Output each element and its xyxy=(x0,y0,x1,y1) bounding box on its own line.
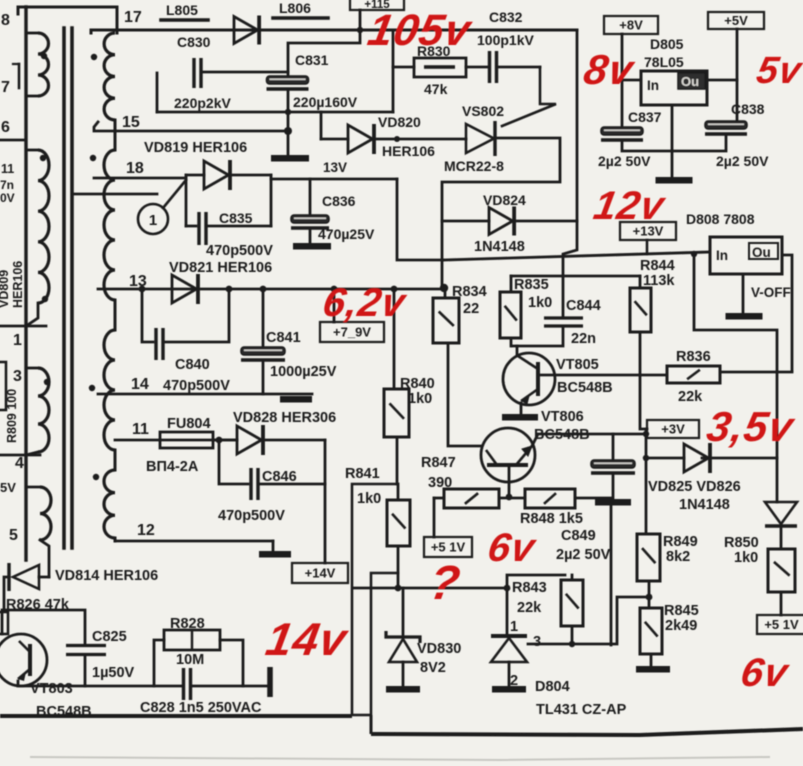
wire R836 right xyxy=(720,371,792,374)
svg-text:2k49: 2k49 xyxy=(665,618,697,634)
node pin 6 xyxy=(0,139,26,142)
capacitor C830 xyxy=(156,73,159,112)
node pin 8 xyxy=(18,7,26,14)
svg-text:VD825 VD826: VD825 VD826 xyxy=(648,479,741,495)
IC D804 TL431 xyxy=(506,588,509,634)
wire pin 18 xyxy=(94,177,186,180)
transistor VT803 xyxy=(0,634,47,686)
svg-text:TL431 CZ-AP: TL431 CZ-AP xyxy=(536,702,627,718)
node +14V box xyxy=(292,563,348,583)
svg-text:R844: R844 xyxy=(640,258,675,274)
svg-text:220p2kV: 220p2kV xyxy=(174,95,231,111)
svg-text:0V: 0V xyxy=(0,191,15,205)
svg-text:2µ2 50V: 2µ2 50V xyxy=(598,153,651,169)
svg-text:C849: C849 xyxy=(561,528,596,544)
svg-text:1k0: 1k0 xyxy=(357,491,381,507)
svg-text:VD828 HER306: VD828 HER306 xyxy=(233,410,336,426)
svg-text:78L05: 78L05 xyxy=(644,54,684,70)
resistor R830 xyxy=(392,30,395,112)
svg-text:1N4148: 1N4148 xyxy=(679,497,730,513)
svg-text:1k0: 1k0 xyxy=(734,550,758,566)
svg-text:HER106: HER106 xyxy=(382,143,435,159)
svg-text:+8V: +8V xyxy=(619,18,643,33)
wire sense line (? net) xyxy=(354,587,507,590)
svg-text:V-OFF: V-OFF xyxy=(751,285,791,300)
wire +115 stub / C831 elbow xyxy=(288,10,360,75)
ground (7808) xyxy=(742,274,745,313)
capacitor C835 (parallel loop) xyxy=(185,175,188,226)
svg-text:C840: C840 xyxy=(175,357,210,373)
wire VT805 base to R836 xyxy=(538,374,667,377)
svg-text:6v: 6v xyxy=(737,650,793,695)
wire feedback tap (to bottom) xyxy=(352,484,398,715)
ground (VD830) xyxy=(386,686,420,693)
svg-text:C828 1n5 250VAC: C828 1n5 250VAC xyxy=(140,700,262,716)
svg-text:5: 5 xyxy=(9,527,18,544)
svg-text:+5V: +5V xyxy=(724,13,748,28)
svg-text:C838: C838 xyxy=(731,101,765,117)
svg-text:C844: C844 xyxy=(566,298,601,314)
transistor VT805 xyxy=(516,346,519,355)
svg-text:1: 1 xyxy=(149,212,157,229)
svg-text:C836: C836 xyxy=(322,193,356,209)
ground (D804) xyxy=(492,686,526,693)
svg-text:C837: C837 xyxy=(628,109,662,125)
svg-text:8V2: 8V2 xyxy=(420,660,446,676)
wire top line pin 17 xyxy=(18,6,117,9)
resistor R834 xyxy=(440,284,448,292)
node pin 7 xyxy=(18,64,21,88)
wire pin 12 xyxy=(115,540,273,543)
winding W1 (primary top) xyxy=(26,32,38,35)
svg-text:+5 1V: +5 1V xyxy=(431,540,466,555)
resistor R843 xyxy=(507,575,565,588)
node pin 1 xyxy=(0,325,46,328)
wire pin 14 xyxy=(98,393,312,396)
capacitor C846 (parallel loop) xyxy=(216,437,223,444)
svg-text:18: 18 xyxy=(126,160,144,177)
svg-text:7: 7 xyxy=(1,79,10,96)
svg-text:VD820: VD820 xyxy=(378,114,421,130)
wire VD828 out to +14V xyxy=(324,440,327,563)
svg-text:R849: R849 xyxy=(663,534,698,550)
wire TL431 ref xyxy=(528,597,649,644)
svg-text:D804: D804 xyxy=(535,679,570,695)
svg-text:14: 14 xyxy=(131,376,149,393)
node +7..9V box xyxy=(333,289,336,322)
svg-text:12v: 12v xyxy=(590,183,669,228)
wire left rail xyxy=(24,7,27,560)
capacitor C840 (parallel loop) xyxy=(139,286,146,293)
svg-text:R847: R847 xyxy=(421,455,456,471)
transformer core xyxy=(62,28,66,548)
node connector circle 1 xyxy=(138,204,168,234)
svg-text:VD809: VD809 xyxy=(0,270,11,308)
svg-text:11: 11 xyxy=(132,421,149,438)
wire VD825 cathode / +13V link xyxy=(694,253,777,502)
wire +3V rail down xyxy=(645,429,648,534)
wire emitter line xyxy=(18,681,183,686)
capacitor C825 xyxy=(66,644,106,647)
svg-text:+5 1V: +5 1V xyxy=(764,617,799,632)
svg-text:FU804: FU804 xyxy=(167,416,211,432)
svg-text:BC548B: BC548B xyxy=(36,704,92,720)
winding S1 (secondary top) xyxy=(104,33,115,120)
ground (C836) xyxy=(293,243,331,250)
page shadow line xyxy=(30,757,770,760)
svg-text:470p500V: 470p500V xyxy=(163,378,230,394)
wire VT806 emitter down xyxy=(508,467,511,497)
wire R834 to VT806 base xyxy=(448,343,482,446)
svg-text:105v: 105v xyxy=(364,6,476,55)
terminal stub xyxy=(267,667,273,697)
wire pin 13 / 6.2V rail xyxy=(98,288,445,291)
ground (C837/C838) xyxy=(671,105,674,178)
capacitor C828 xyxy=(182,668,185,700)
svg-text:L806: L806 xyxy=(279,0,311,16)
ground (pin 14 rail) xyxy=(280,396,312,403)
svg-text:In: In xyxy=(716,248,728,263)
svg-text:R841: R841 xyxy=(345,466,380,482)
svg-text:C825: C825 xyxy=(92,629,127,645)
svg-text:R836: R836 xyxy=(676,349,711,365)
inductor L806 xyxy=(273,16,328,20)
node +13V box xyxy=(620,222,676,240)
svg-text:3,5v: 3,5v xyxy=(703,403,798,450)
svg-text:+14V: +14V xyxy=(305,566,336,581)
diode VD825 xyxy=(646,457,684,460)
svg-text:1: 1 xyxy=(13,332,22,349)
svg-text:VD824: VD824 xyxy=(483,192,526,208)
svg-text:14v: 14v xyxy=(262,613,352,665)
wire 13V rail xyxy=(271,178,397,181)
diode VD826 (pointing down) xyxy=(765,502,797,524)
svg-text:2µ2 50V: 2µ2 50V xyxy=(716,153,769,169)
capacitor C836 xyxy=(309,179,312,215)
svg-text:VT805: VT805 xyxy=(556,357,599,373)
svg-text:VD830: VD830 xyxy=(417,641,461,657)
svg-text:1µ50V: 1µ50V xyxy=(92,665,135,681)
svg-text:1k0: 1k0 xyxy=(528,295,552,311)
svg-text:VD821 HER106: VD821 HER106 xyxy=(169,260,272,276)
node +5.1V box (right) xyxy=(757,615,803,634)
winding W3 (primary) xyxy=(26,367,38,370)
wire main vertical (105V drop) xyxy=(563,30,577,318)
winding S2 xyxy=(104,150,115,300)
svg-text:D805: D805 xyxy=(650,36,684,52)
resistor R840 xyxy=(391,286,398,293)
svg-text:VD819 HER106: VD819 HER106 xyxy=(144,140,247,156)
node +115V box (clipped) xyxy=(350,0,404,10)
svg-text:Ou: Ou xyxy=(752,245,771,260)
svg-text:470p500V: 470p500V xyxy=(206,243,273,259)
svg-text:22n: 22n xyxy=(571,331,596,347)
svg-text:In: In xyxy=(647,78,659,93)
wire ground rail (C830/C831) xyxy=(157,111,393,114)
wire pin 11 xyxy=(115,439,237,442)
svg-text:MCR22-8: MCR22-8 xyxy=(444,158,504,174)
svg-text:6: 6 xyxy=(1,119,10,136)
ground (C849) xyxy=(595,499,631,506)
svg-text:5v: 5v xyxy=(753,49,803,92)
svg-text:12: 12 xyxy=(137,522,155,539)
svg-text:BC548B: BC548B xyxy=(557,380,613,396)
ground (VT805 emitter) xyxy=(520,403,523,414)
wire R835/R844 top rail xyxy=(511,275,640,278)
svg-text:VD814 HER106: VD814 HER106 xyxy=(55,568,158,584)
wire pin 15 xyxy=(94,122,288,131)
svg-text:11: 11 xyxy=(1,162,14,176)
svg-text:R809 100: R809 100 xyxy=(5,389,19,443)
resistor R848 xyxy=(499,497,525,500)
capacitor C831 xyxy=(267,76,309,84)
svg-text:+3V: +3V xyxy=(661,422,685,437)
wire main 105V line xyxy=(91,30,577,33)
svg-text:10M: 10M xyxy=(176,652,204,668)
svg-text:47k: 47k xyxy=(424,81,448,97)
svg-text:15: 15 xyxy=(122,114,140,131)
svg-text:C835: C835 xyxy=(219,210,253,226)
svg-text:C846: C846 xyxy=(262,469,297,485)
svg-text:C831: C831 xyxy=(295,52,329,68)
wire VT806 collector to +3V node xyxy=(532,434,646,446)
diode (L805-L806) xyxy=(234,17,258,44)
svg-text:R835: R835 xyxy=(514,277,549,293)
svg-text:2µ2 50V: 2µ2 50V xyxy=(556,547,611,563)
svg-text:R845: R845 xyxy=(664,603,699,619)
capacitor C844 xyxy=(544,316,583,319)
svg-text:HER106: HER106 xyxy=(11,261,25,308)
wire R843 top lead xyxy=(571,575,574,580)
wire 13V to VD820 cathode xyxy=(397,179,443,260)
svg-text:7n: 7n xyxy=(0,178,14,192)
svg-text:ВП4-2А: ВП4-2А xyxy=(146,459,199,475)
svg-text:470p500V: 470p500V xyxy=(218,508,285,524)
zener VD830 xyxy=(402,588,405,637)
ground (pin 12) xyxy=(272,541,275,551)
svg-text:C830: C830 xyxy=(177,34,211,50)
wire VT803 collector loop xyxy=(2,610,85,645)
svg-text:D808 7808: D808 7808 xyxy=(686,211,755,227)
winding W2 (primary) xyxy=(26,149,38,152)
resistor R835 xyxy=(500,292,521,338)
wire +13V rail xyxy=(443,252,710,260)
svg-text:L805: L805 xyxy=(166,2,198,18)
capacitor C841 xyxy=(260,286,267,293)
ground (R845) xyxy=(636,666,670,673)
svg-text:1N4148: 1N4148 xyxy=(474,239,525,255)
wire 7808 out / V-OFF xyxy=(782,255,792,371)
svg-text:C832: C832 xyxy=(489,9,523,25)
winding S3 xyxy=(104,330,115,450)
svg-text:3: 3 xyxy=(533,634,541,650)
diode VD820 xyxy=(320,112,323,139)
svg-text:4: 4 xyxy=(15,455,24,472)
svg-text:VS802: VS802 xyxy=(462,103,504,119)
svg-text:C841: C841 xyxy=(266,330,301,346)
svg-text:R850: R850 xyxy=(724,535,759,551)
winding S4 xyxy=(104,470,115,538)
wire VD814 cathode down xyxy=(4,577,9,610)
node pin 4 xyxy=(0,454,40,457)
svg-text:+7_9V: +7_9V xyxy=(333,325,371,340)
ground (C831) xyxy=(271,155,309,162)
schematic frame bottom edge xyxy=(0,714,352,718)
svg-text:R834: R834 xyxy=(452,284,487,300)
svg-text:VT803: VT803 xyxy=(30,681,73,697)
inductor L805 xyxy=(161,18,208,22)
svg-text:470µ25V: 470µ25V xyxy=(318,226,375,242)
wire R844 bottom to +3V node xyxy=(640,332,647,429)
svg-text:22k: 22k xyxy=(517,600,542,616)
node +3V box xyxy=(647,420,699,438)
svg-text:5V: 5V xyxy=(0,480,16,495)
svg-text:1k0: 1k0 xyxy=(408,391,432,407)
svg-text:6v: 6v xyxy=(484,525,540,570)
diode VD814 xyxy=(7,563,10,591)
svg-text:220µ160V: 220µ160V xyxy=(293,94,358,110)
svg-text:VT806: VT806 xyxy=(541,409,584,425)
node +5V box xyxy=(708,12,764,29)
svg-text:100p1kV: 100p1kV xyxy=(477,32,534,48)
svg-text:13V: 13V xyxy=(323,160,347,175)
svg-text:22k: 22k xyxy=(678,389,703,405)
node +5.1V box (left) xyxy=(424,537,472,557)
svg-text:8k2: 8k2 xyxy=(666,549,690,565)
svg-text:6,2v: 6,2v xyxy=(319,280,410,325)
svg-text:3: 3 xyxy=(13,368,22,385)
svg-text:8v: 8v xyxy=(580,46,638,93)
svg-text:R843: R843 xyxy=(512,580,547,596)
wire VS802 cathode loop xyxy=(442,138,560,287)
svg-text:8: 8 xyxy=(1,12,10,29)
svg-text:1000µ25V: 1000µ25V xyxy=(270,364,337,380)
svg-text:Ou: Ou xyxy=(681,74,699,89)
svg-text:22: 22 xyxy=(463,301,479,317)
node +8V box xyxy=(604,16,658,34)
capacitor C849 xyxy=(612,434,615,460)
wire R848 right / TL431 ref drop xyxy=(575,498,611,645)
component stub (clipped) at pin 3 xyxy=(0,362,6,410)
svg-text:1: 1 xyxy=(510,619,518,635)
winding W4 (primary bottom) xyxy=(26,486,40,489)
svg-text:17: 17 xyxy=(124,9,142,26)
